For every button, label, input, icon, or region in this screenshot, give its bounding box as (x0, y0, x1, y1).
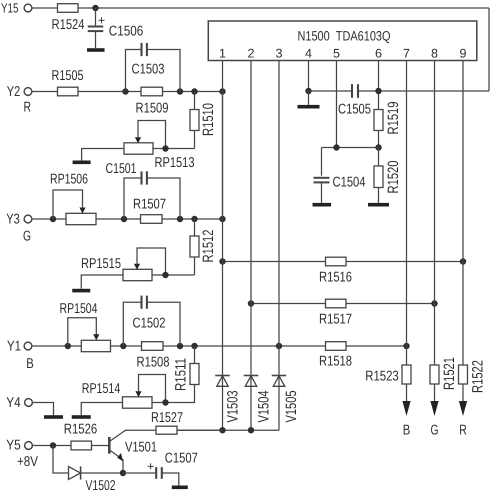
svg-text:RP1514: RP1514 (82, 381, 121, 397)
svg-text:3: 3 (276, 47, 283, 61)
svg-text:Y5: Y5 (6, 438, 21, 454)
svg-text:V1503: V1503 (225, 391, 242, 423)
svg-text:R: R (23, 100, 31, 116)
svg-text:Y1: Y1 (7, 339, 21, 355)
svg-text:Y15: Y15 (1, 0, 19, 15)
svg-text:R: R (459, 423, 467, 439)
svg-text:4: 4 (305, 47, 312, 61)
svg-text:R1519: R1519 (385, 102, 402, 135)
svg-text:G: G (431, 423, 439, 439)
svg-text:C1501: C1501 (106, 161, 137, 177)
svg-text:R1505: R1505 (52, 68, 84, 84)
svg-text:R1527: R1527 (151, 410, 183, 426)
svg-text:R1516: R1516 (319, 270, 352, 286)
svg-text:Y3: Y3 (6, 212, 20, 228)
svg-text:R1509: R1509 (136, 101, 169, 117)
svg-text:Y4: Y4 (6, 395, 21, 411)
svg-text:6: 6 (375, 47, 382, 61)
svg-text:R1520: R1520 (385, 161, 402, 194)
svg-text:B: B (26, 356, 34, 372)
svg-text:RP1515: RP1515 (81, 256, 121, 272)
svg-text:R1508: R1508 (137, 355, 170, 371)
svg-text:R1510: R1510 (200, 103, 217, 136)
svg-text:+: + (147, 460, 154, 474)
svg-text:1: 1 (219, 47, 226, 61)
svg-text:R1511: R1511 (173, 358, 190, 391)
svg-text:N1500 TDA6103Q: N1500 TDA6103Q (298, 29, 391, 44)
svg-text:R1518: R1518 (319, 354, 352, 370)
svg-text:+: + (98, 14, 105, 28)
svg-text:9: 9 (460, 47, 467, 61)
svg-text:R1522: R1522 (470, 360, 487, 393)
svg-text:8: 8 (431, 47, 438, 61)
svg-text:V1504: V1504 (256, 391, 273, 423)
svg-text:C1502: C1502 (133, 316, 166, 332)
svg-text:RP1513: RP1513 (155, 155, 195, 171)
svg-text:C1506: C1506 (109, 24, 144, 40)
svg-text:RP1504: RP1504 (60, 301, 98, 317)
svg-text:R1517: R1517 (319, 312, 352, 328)
svg-text:C1505: C1505 (338, 102, 371, 118)
svg-text:Y2: Y2 (7, 84, 21, 100)
svg-text:R1507: R1507 (133, 197, 166, 213)
svg-text:R1524: R1524 (52, 17, 85, 33)
svg-text:C1507: C1507 (165, 451, 198, 467)
svg-text:5: 5 (333, 47, 340, 61)
svg-text:C1503: C1503 (132, 62, 165, 78)
svg-text:C1504: C1504 (333, 175, 366, 191)
svg-text:R1521: R1521 (441, 357, 458, 390)
svg-text:RP1506: RP1506 (50, 172, 88, 188)
svg-text:2: 2 (248, 47, 255, 61)
svg-text:V1502: V1502 (86, 478, 116, 492)
svg-text:R1512: R1512 (200, 230, 217, 263)
svg-text:R1526: R1526 (64, 422, 98, 438)
svg-text:V1501: V1501 (125, 440, 157, 456)
svg-text:G: G (23, 229, 31, 245)
svg-text:B: B (403, 423, 411, 439)
svg-text:7: 7 (403, 47, 410, 61)
svg-text:+8V: +8V (17, 454, 38, 470)
svg-text:V1505: V1505 (283, 391, 300, 423)
svg-text:R1523: R1523 (365, 369, 399, 385)
